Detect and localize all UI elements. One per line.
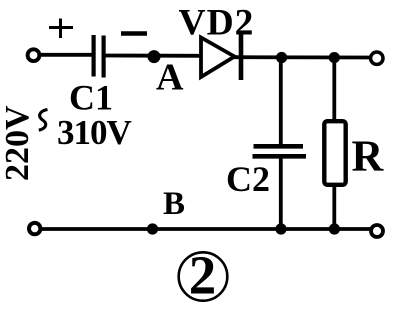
svg-text:220V: 220V bbox=[0, 105, 36, 181]
svg-text:R: R bbox=[352, 132, 385, 181]
svg-text:C2: C2 bbox=[226, 159, 270, 199]
svg-text:B: B bbox=[163, 186, 185, 222]
svg-text:C1: C1 bbox=[69, 78, 113, 118]
svg-text:2: 2 bbox=[189, 245, 217, 306]
svg-text:A: A bbox=[156, 57, 184, 99]
svg-text:VD2: VD2 bbox=[179, 3, 255, 44]
svg-text:310V: 310V bbox=[57, 113, 132, 152]
